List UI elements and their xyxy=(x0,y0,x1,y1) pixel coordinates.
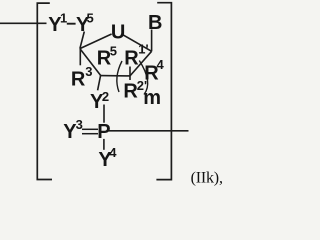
svg-text:2: 2 xyxy=(102,89,109,104)
svg-text:R: R xyxy=(124,47,139,69)
svg-text:5: 5 xyxy=(110,44,117,59)
svg-text:3: 3 xyxy=(76,117,83,132)
svg-text:U: U xyxy=(111,22,125,44)
svg-text:m: m xyxy=(143,87,161,109)
svg-text:,: , xyxy=(219,169,223,186)
svg-text:4: 4 xyxy=(157,57,165,72)
svg-text:4: 4 xyxy=(109,145,117,160)
svg-text:P: P xyxy=(97,121,110,143)
svg-text:5: 5 xyxy=(87,10,94,25)
svg-text:3: 3 xyxy=(85,64,92,79)
svg-text:1: 1 xyxy=(60,10,67,25)
svg-text:(IIk): (IIk) xyxy=(191,169,219,186)
svg-text:R: R xyxy=(71,69,86,91)
svg-text:1': 1' xyxy=(138,42,148,57)
svg-text:B: B xyxy=(148,12,162,34)
